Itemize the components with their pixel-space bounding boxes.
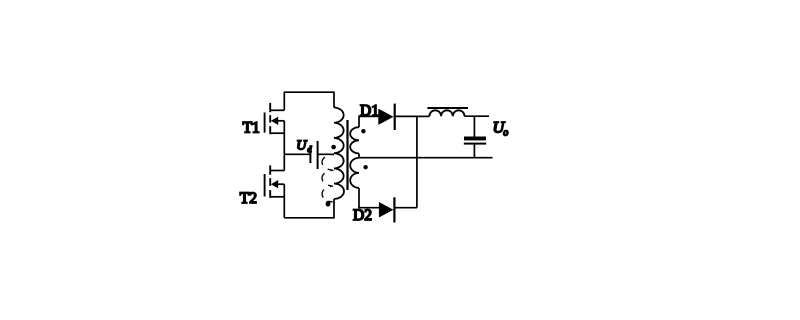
- T1 body arrow: [271, 117, 278, 125]
- T1 channel dash middle: [269, 115, 271, 122]
- source Ud negative plate: [309, 145, 311, 163]
- capacitor top plate: [464, 137, 486, 141]
- wire midpoint to source Ud: [284, 153, 310, 155]
- wire top rail: [284, 91, 334, 93]
- wire D2 cathode to junction: [394, 207, 417, 209]
- transformer secondary upper winding: [350, 127, 359, 153]
- wire secondary bottom lead to D2: [359, 188, 379, 208]
- source Ud positive plate: [317, 141, 319, 169]
- wire inductor to output: [465, 115, 490, 117]
- svg-text:U: U: [296, 138, 307, 153]
- wire left vertical (T1 body/source to midpoint): [283, 121, 285, 171]
- T2 body lead: [277, 183, 285, 185]
- T2 body arrow: [271, 180, 278, 188]
- wire secondary center tap joiner: [358, 153, 360, 158]
- wire output return rail: [359, 157, 493, 159]
- wire capacitor top stub: [473, 116, 475, 136]
- T2 drain lead: [270, 170, 284, 172]
- inductor winding: [429, 110, 464, 116]
- wire D1 cathode to junction: [395, 115, 418, 117]
- svg-text:d: d: [307, 144, 312, 154]
- svg-text:T2: T2: [240, 190, 257, 207]
- transformer primary winding: [334, 108, 344, 199]
- T2 channel dash middle: [269, 178, 271, 186]
- transformer secondary lower winding: [350, 158, 359, 188]
- wire Ud to primary center tap: [318, 153, 334, 155]
- diode D1 triangle: [378, 109, 393, 125]
- T1 drain lead: [270, 109, 284, 111]
- capacitor bottom plate: [464, 143, 486, 145]
- transformer primary auxiliary winding (dashed): [322, 154, 334, 202]
- wire left vertical (T2 body/source to bottom rail): [283, 184, 285, 218]
- T2 source lead: [270, 196, 284, 198]
- svg-text:T1: T1: [243, 120, 260, 137]
- T2 channel dash bottom: [269, 190, 271, 198]
- secondary upper polarity dot: [361, 129, 365, 133]
- T1 gate line: [264, 113, 266, 133]
- svg-text:D2: D2: [353, 207, 372, 224]
- diode D2 cathode bar: [393, 197, 395, 222]
- T2 channel dash top: [269, 165, 271, 174]
- T1 body lead: [277, 120, 285, 122]
- T1 channel dash bottom: [269, 126, 271, 134]
- wire primary top lead: [333, 91, 335, 107]
- T2 gate line: [264, 174, 266, 197]
- wire junction to inductor: [417, 115, 430, 117]
- inductor core bar: [427, 107, 468, 109]
- transformer primary polarity dot: [331, 145, 336, 150]
- svg-text:o: o: [503, 128, 508, 139]
- transformer auxiliary winding polarity dot: [326, 201, 331, 207]
- wire junction vertical (D1/D2 cathodes): [416, 116, 418, 207]
- T1 source lead: [270, 132, 284, 134]
- diode D1 cathode bar: [394, 104, 396, 130]
- transformer core: [346, 120, 348, 190]
- wire left vertical (top rail to T1 drain): [283, 91, 285, 110]
- T1 channel dash top: [269, 103, 271, 112]
- wire secondary top lead to D1: [359, 116, 379, 127]
- svg-text:D1: D1: [360, 102, 379, 119]
- transistor T2: [265, 165, 285, 198]
- secondary lower polarity dot: [363, 165, 367, 169]
- transistor T1: [265, 103, 285, 134]
- wire bottom rail: [284, 217, 334, 219]
- wire primary bottom lead: [333, 199, 335, 219]
- wire capacitor bottom stub: [473, 145, 475, 158]
- diode D2 triangle: [379, 202, 394, 218]
